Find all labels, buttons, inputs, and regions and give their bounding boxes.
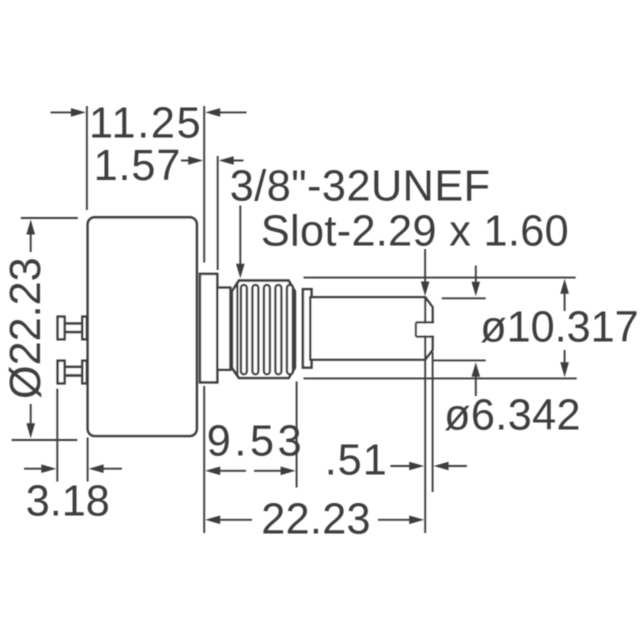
svg-text:22.23: 22.23 — [261, 496, 371, 544]
shaft retaining ring — [303, 289, 312, 367]
spacer washer — [217, 288, 230, 370]
dim 9.53 arrows — [205, 467, 295, 476]
shaft — [310, 297, 432, 360]
svg-text:Ø22.23: Ø22.23 — [2, 257, 50, 399]
svg-text:11.25: 11.25 — [89, 100, 202, 148]
dim o6.342 extension lines — [442, 297, 486, 299]
dim 11.25 extension lines — [86, 106, 88, 210]
svg-text:1.57: 1.57 — [94, 142, 182, 190]
dim o10.317 extension lines — [304, 277, 576, 279]
shaft chamfer edge line — [424, 297, 426, 360]
terminal pin 2 (lower) — [58, 361, 87, 384]
terminal pin 1 (upper) — [58, 317, 87, 340]
svg-text:3.18: 3.18 — [26, 478, 110, 526]
mounting flange plate — [200, 274, 217, 383]
dim 11.25 arrows — [51, 108, 247, 117]
potentiometer body — [88, 217, 197, 436]
dim Ø22.23 top tick — [21, 217, 78, 219]
dim 9.53 extension lines — [203, 386, 205, 533]
thread groove 5 — [287, 285, 293, 374]
svg-text:Slot-2.29 x 1.60: Slot-2.29 x 1.60 — [261, 208, 569, 256]
dim .51 extension line — [424, 360, 426, 533]
thread groove 2 — [252, 285, 258, 374]
dim .51 arrows — [390, 462, 467, 471]
svg-text:3/8"-32UNEF: 3/8"-32UNEF — [230, 162, 491, 210]
dim 3.18 extension lines — [56, 389, 58, 482]
shaft slot notch — [415, 324, 436, 336]
dim 1.57 extension line — [217, 156, 219, 270]
svg-text:.51: .51 — [325, 437, 388, 485]
dim 1.57 arrows — [181, 156, 244, 165]
threaded bushing — [232, 281, 295, 378]
dim 22.23 arrows — [205, 516, 424, 525]
dim Ø22.23 bottom extension line — [12, 439, 78, 441]
svg-text:9.53: 9.53 — [207, 417, 305, 465]
thread groove 4 — [275, 285, 281, 374]
thread spec leader — [239, 206, 241, 266]
thread chamfer line — [236, 282, 238, 377]
dim o6.342 arrows — [472, 266, 481, 397]
svg-text:ø6.342: ø6.342 — [444, 391, 581, 439]
thread groove 3 — [264, 285, 270, 374]
dim o10.317 dimension line + arrows — [560, 279, 569, 377]
dim 3.18 arrows — [24, 464, 122, 473]
slot spec leader — [424, 249, 426, 283]
thread groove 1 — [241, 285, 247, 374]
dim Ø22.23 dimension line + arrows — [26, 220, 35, 439]
svg-text:ø10.317: ø10.317 — [480, 303, 638, 351]
